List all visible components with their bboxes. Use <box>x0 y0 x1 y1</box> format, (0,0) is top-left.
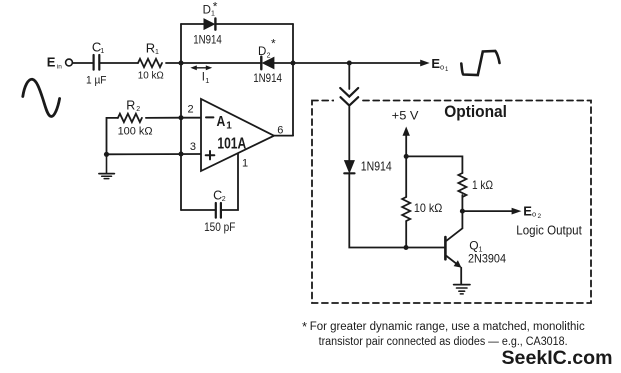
svg-text:2: 2 <box>538 213 542 220</box>
svg-text:1: 1 <box>445 67 449 73</box>
resistor R3 10k vertical <box>402 197 410 221</box>
label R2 <box>126 99 140 114</box>
node summing junction <box>179 61 184 66</box>
svg-text:*: * <box>213 0 218 14</box>
label Q1 <box>469 239 482 254</box>
current arrow I1 <box>190 65 212 70</box>
label minus input <box>206 116 213 118</box>
arrow Eo1 <box>420 60 430 67</box>
wire supply down to R3 <box>405 156 407 197</box>
resistor R4 1k vertical <box>458 173 466 197</box>
wire vertical summing node down to C2 loop <box>180 63 182 210</box>
wire R2 left leg down <box>107 118 118 154</box>
node ground junction <box>104 152 109 157</box>
svg-text:1N914: 1N914 <box>361 160 392 174</box>
svg-text:1N914: 1N914 <box>193 35 222 47</box>
connection chevrons <box>340 88 358 106</box>
square wave output symbol <box>461 51 499 75</box>
power +5V arrow <box>403 127 410 157</box>
wire top feedback branch left <box>181 23 204 25</box>
svg-text:1: 1 <box>479 247 483 254</box>
label A1 <box>217 113 233 132</box>
svg-text:10 kΩ: 10 kΩ <box>414 201 443 215</box>
svg-text:D: D <box>203 4 211 16</box>
label Eo1 <box>431 56 449 73</box>
svg-text:Logic Output: Logic Output <box>516 223 582 237</box>
svg-text:2: 2 <box>267 52 271 59</box>
svg-text:1: 1 <box>155 49 159 56</box>
svg-text:For greater dynamic range, use: For greater dynamic range, use a matched… <box>310 321 585 333</box>
svg-text:Optional: Optional <box>444 102 507 121</box>
svg-text:10 kΩ: 10 kΩ <box>138 70 164 82</box>
wire D3 to base rail <box>349 174 444 248</box>
svg-text:E: E <box>47 55 56 70</box>
wire C1 to R1 <box>99 62 138 64</box>
label Ein <box>47 55 62 71</box>
svg-text:6: 6 <box>277 125 283 137</box>
svg-text:101A: 101A <box>217 135 246 152</box>
svg-text:1: 1 <box>100 48 104 55</box>
svg-text:E: E <box>523 203 532 218</box>
label D1 asterisk <box>203 0 218 18</box>
wire pin1 comp leg <box>221 153 238 210</box>
wire C2 left leg <box>181 209 216 211</box>
label C2 <box>213 189 226 204</box>
white gap for chevron crossing <box>334 97 360 105</box>
wire ground rail to pin 3 <box>107 153 202 155</box>
capacitor C2 <box>216 203 221 218</box>
svg-text:2: 2 <box>188 104 194 116</box>
svg-text:R: R <box>126 99 135 113</box>
diode D2 <box>261 57 274 70</box>
wire top feedback branch right <box>217 23 294 25</box>
svg-text:R: R <box>146 41 155 56</box>
node pin3 junction <box>179 152 184 157</box>
node collector junction <box>460 209 465 214</box>
transistor Q1 <box>445 211 462 284</box>
svg-text:*: * <box>302 319 307 334</box>
svg-text:*: * <box>271 37 276 51</box>
wire R2 to pin2 junction <box>146 117 181 119</box>
svg-text:1: 1 <box>226 120 232 131</box>
wire collector node to arrow <box>462 210 512 212</box>
ground symbol emitter <box>454 285 470 294</box>
svg-text:o: o <box>532 210 536 219</box>
node Ein input terminal <box>66 59 73 66</box>
svg-text:150 pF: 150 pF <box>204 222 235 234</box>
svg-text:2: 2 <box>136 106 140 113</box>
diode D3 1N914 <box>344 161 354 174</box>
svg-text:o: o <box>440 63 444 72</box>
wire branch down to optional <box>348 63 350 89</box>
wire vertical feedback right leg <box>292 24 294 136</box>
svg-text:Q: Q <box>469 239 478 253</box>
node supply junction <box>404 154 409 159</box>
svg-text:SeekIC.com: SeekIC.com <box>502 347 613 369</box>
svg-text:1: 1 <box>205 76 209 85</box>
ground symbol left <box>99 154 114 178</box>
label D2 asterisk <box>258 37 276 60</box>
capacitor C1 <box>94 55 100 70</box>
svg-text:100 kΩ: 100 kΩ <box>118 126 153 138</box>
node optional branch junction <box>347 61 352 66</box>
label C1 <box>92 40 105 56</box>
note text line 1 <box>302 319 585 334</box>
sine wave input symbol <box>23 79 60 116</box>
wire R3 to rail <box>405 221 407 248</box>
resistor R2 <box>118 114 142 122</box>
svg-text:1 µF: 1 µF <box>86 75 107 87</box>
wire supply to 1k branch <box>406 156 462 173</box>
wire terminal to C1 <box>72 62 93 64</box>
wire vertical summing node to top branch <box>180 24 182 63</box>
svg-text:+5 V: +5 V <box>392 109 419 123</box>
arrow Eo2 <box>512 208 522 215</box>
label Eo2 <box>523 203 541 220</box>
svg-text:A: A <box>217 113 226 130</box>
wire op-amp output <box>274 135 293 137</box>
wire R4 to collector node <box>461 195 463 211</box>
label I1 <box>202 72 210 85</box>
node inverting input junction <box>179 115 184 120</box>
diode D1 <box>204 19 215 30</box>
op-amp U1 triangle <box>201 99 274 171</box>
resistor R1 <box>138 59 162 67</box>
node feedback output junction <box>291 61 296 66</box>
svg-text:D: D <box>258 46 266 58</box>
wire to pin 2 <box>181 117 201 119</box>
dashed optional box <box>312 101 591 304</box>
svg-text:1: 1 <box>242 158 248 170</box>
svg-text:2: 2 <box>222 196 226 203</box>
wire chevron to diode D3 <box>348 107 350 161</box>
wire D2 to Eo1 <box>274 62 424 64</box>
svg-text:in: in <box>57 63 62 70</box>
svg-text:3: 3 <box>190 141 196 153</box>
svg-text:2N3904: 2N3904 <box>468 254 507 266</box>
wire R1 to summing node <box>166 62 261 64</box>
label plus input <box>206 151 215 159</box>
node base rail junction <box>404 245 409 250</box>
svg-text:transistor pair connected as d: transistor pair connected as diodes — e.… <box>319 336 568 348</box>
label R1 <box>146 41 159 57</box>
svg-text:1N914: 1N914 <box>253 73 282 85</box>
svg-text:1 kΩ: 1 kΩ <box>472 178 493 192</box>
